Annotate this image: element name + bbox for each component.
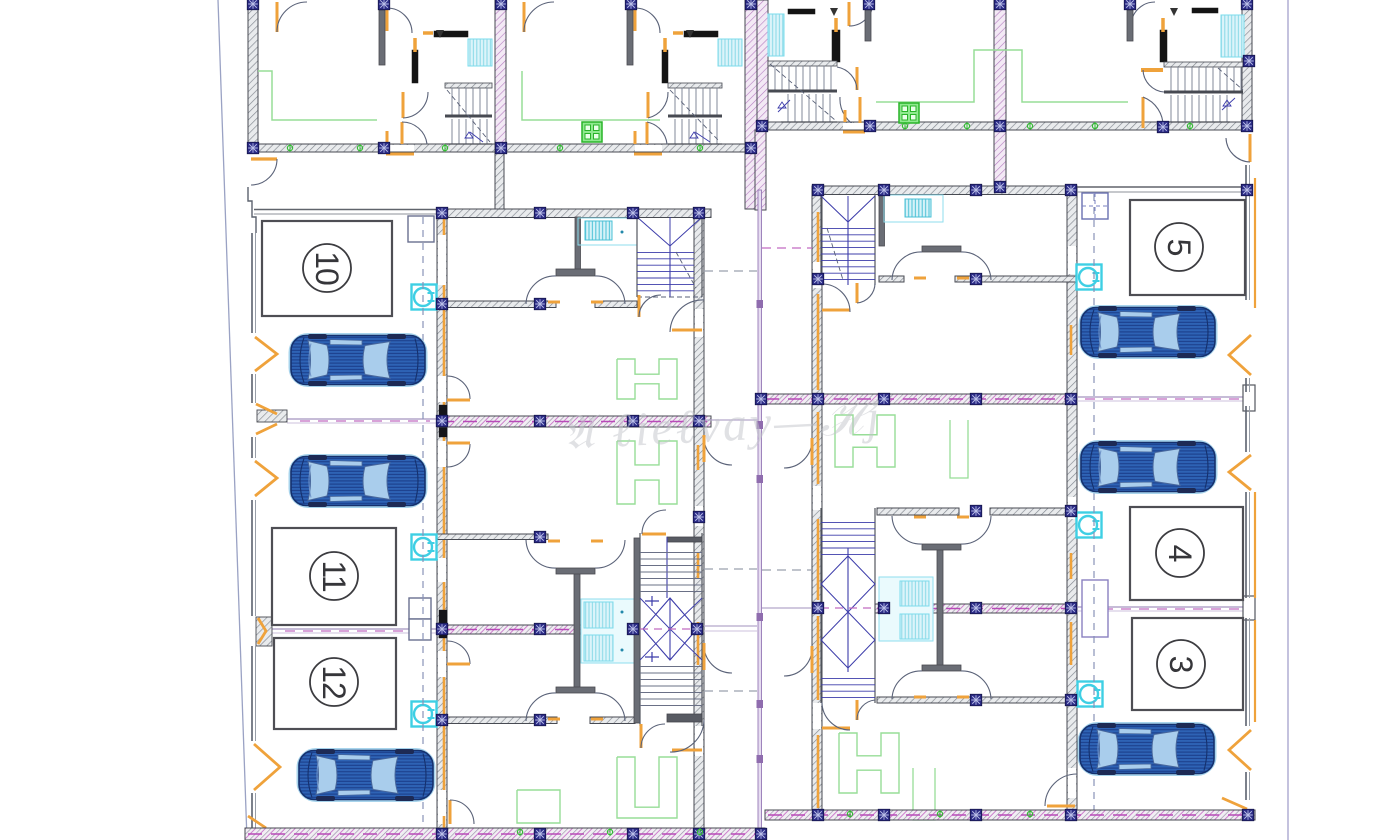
stair1 well [637,217,702,297]
bath2 double doors up [526,540,556,568]
dashed service line right [1093,194,1095,820]
main top wall right section [812,186,1077,195]
green planter right room1b [950,420,968,478]
stair2 exit door [640,724,643,748]
green cabinet room3 [517,790,560,823]
west wall windows [439,405,447,437]
stairR2 well [821,508,875,703]
stair2 winder diamond [643,598,697,660]
bottom left door [248,816,266,828]
parking box 11 [272,528,396,625]
gate chevron 1 [255,337,277,371]
bath2 top cap [556,568,595,574]
bottom door arc left [449,800,452,824]
closet boxes middle [409,598,431,619]
bath1 cyan border [578,218,637,245]
left unit entry door top [672,329,702,332]
meter symbols left [412,285,437,310]
unit2 stove [582,122,602,142]
street doors through block1 wall [387,145,414,152]
unit2 kitchen counter [522,71,660,120]
bath1 wall [575,217,581,270]
parking edge steps [248,187,256,233]
unit2 toilet [686,30,694,38]
stair2 well [640,533,702,726]
bathR1 radiator [905,199,931,217]
corridor dashes right [762,247,812,249]
party wall 1 left unit [437,416,711,427]
unit1 toilet [436,30,444,38]
parking box 3 [1132,618,1243,710]
svg-text:4: 4 [1162,545,1198,562]
green cabinet right room3 [913,768,935,820]
left unit wall above bedroom2 [437,534,548,540]
right unit wall row2 [877,508,959,515]
top-left block bottom wall [248,144,757,152]
right unit west wall [812,194,822,819]
closet box right middle [1082,580,1108,637]
car 6 [1080,723,1214,775]
stair2 bath-side wall [634,538,640,723]
unit3 toilet [830,8,838,16]
green wardrobe room1 [617,359,677,399]
svg-text:10: 10 [309,251,345,285]
unit3 stairs [768,61,837,66]
party wall 1 right unit [762,394,1077,404]
unit2 stair door [647,92,650,118]
corridor head wall [755,130,766,210]
party wall 2 stub [256,617,272,646]
unit2 entry door [523,2,526,32]
top-left block middle party wall [495,0,506,152]
unit2 hall wall [627,0,633,65]
party line through stair2 [640,628,702,630]
left unit east wall [694,209,704,840]
green ticks [287,145,292,150]
unit1 stairs [445,83,492,88]
parking box 4 [1130,507,1243,600]
party line through stairR2 [821,607,875,609]
unit3 stove [899,103,919,123]
party2 ext end door [1243,596,1255,620]
east wall windows orange [697,553,700,579]
wall junction blocks [436,207,448,219]
bottom wall right section [765,810,1255,820]
right margin line [1287,0,1289,840]
top-right block left wall [757,0,768,130]
stair2 top door [642,533,666,536]
svg-text:3: 3 [1163,656,1199,673]
unit2 stairs [668,83,722,88]
parking box 5 [1130,200,1245,295]
meter symbols right [1077,265,1102,290]
car 4 [1081,306,1215,358]
closet box top [408,216,434,242]
party wall 2 right unit [812,604,822,613]
gate chevron 3 [254,744,280,790]
unit1 hall wall [379,0,385,65]
right gate chevron 1 [1229,335,1251,375]
unit1 sink counter [434,31,468,37]
party wall ext stub [257,410,287,422]
stairR1 well [821,194,875,285]
right unit entry door bottom [822,727,850,730]
unit4 sink counter [1192,8,1218,13]
car 1 [291,334,425,386]
car 3 [299,749,433,801]
bathR1 cyan border [884,195,943,222]
bath1 radiator [585,221,612,240]
unit4 shower [1221,15,1244,57]
bathR2 I-beam [937,549,943,669]
top-right block right wall [1242,0,1252,130]
west wall orange door line [443,217,446,235]
unit4 stair doors [1141,68,1163,72]
green wardrobe room3 U [617,757,677,818]
gate jog middle [258,618,266,644]
unit1 shower [468,39,492,66]
double shower right [879,577,933,641]
unit3 shower [768,14,784,56]
connector wall A [495,152,504,210]
connector wall B [994,130,1006,187]
elevator box right top [1082,193,1108,219]
party1 parking extension right [1077,396,1243,398]
bathR3 doors down [892,671,922,699]
right unit entry door top [822,309,850,312]
east wall window orange [1070,553,1073,579]
car 5 [1081,441,1215,493]
parking right edge line [1245,165,1247,300]
green wardrobe right room3 [839,733,899,793]
street door through block2 wall [843,123,865,130]
bath2 wall I-beam [574,573,580,688]
unit1 wc door post [412,50,418,83]
car 2 [291,455,425,507]
corridor dashes left [704,568,757,570]
unit1 stair door [402,92,405,118]
right bottom door [1222,798,1247,809]
stairR1 exit door [856,283,859,303]
right gate chevron 3 [1229,730,1251,770]
unit1 entry door [276,2,279,32]
unit2 hall door [634,5,637,31]
right gate chevron 2 [1229,455,1251,490]
bathR1 cap [922,246,961,252]
unit4 entry door [1130,2,1133,26]
unit2 shower [718,39,742,66]
street edge line left [254,209,437,211]
street door [251,157,277,160]
room2 west door arc [447,444,470,467]
corridor spine wall [758,190,762,833]
party wall 2 left unit [437,625,637,634]
left unit wall bedroom3 [437,717,557,724]
right unit east wall [1067,194,1077,819]
lot boundary line [218,0,247,840]
bathR1 wall [879,194,885,246]
unit4 hall wall [1127,0,1133,41]
dashed service line left [422,217,424,836]
party1 ext end door [1243,385,1255,411]
parking left edge line [251,233,253,333]
bath2 bottom cap [556,687,595,693]
watermark signature [561,390,884,460]
bath3 double doors down [526,693,556,721]
unit2 sink counter [684,31,718,37]
svg-text:11: 11 [316,560,352,591]
top-right block middle wall [994,0,1006,186]
bottom door arc right [1045,774,1077,806]
bathR1 double doors [892,252,922,280]
svg-text:12: 12 [316,665,352,699]
unit1 hall door [386,5,389,31]
stair2 lower treads [640,667,702,706]
unit3 wc post [832,30,840,62]
stair1 lower door [638,295,641,317]
unit4 wc post [1160,30,1167,62]
unit1 kitchen counter [258,71,377,120]
bath1 door cap [556,269,595,276]
right unit wall row3 [877,697,1077,703]
right boundary orange lines [1254,178,1256,308]
left unit west wall [437,217,447,828]
parking box 10 [262,221,392,316]
unit2 wc door post [662,50,668,83]
green wardrobe right room1 [835,415,895,467]
svg-text:5: 5 [1161,239,1197,256]
double shower unit [581,599,635,663]
top-right block bottom wall [757,122,1252,130]
unit3 stair doors [856,67,859,90]
top-left block right wall [745,0,757,209]
left unit wall under bedroom1 [437,301,556,308]
right unit wall row1 [879,276,904,282]
bottom wall left section [245,828,765,840]
main top wall left unit [437,209,711,218]
unit3 kitchen counter [876,50,1128,102]
stairR2 exit door [856,700,859,720]
gate chevron 2 [255,461,277,496]
party wall 1 parking extension [287,418,437,420]
unit3 sink counter [788,9,815,14]
right unit west wall orange [817,212,820,262]
parking box 12 [274,638,396,729]
gate funnel 1 [256,404,277,434]
corridor door arcs [704,437,732,465]
unit4 toilet [1170,8,1178,16]
bathR2 caps [922,544,961,550]
left unit entry door bottom [672,749,702,752]
unit3 hall wall [865,0,871,41]
room3 west door arc [447,641,470,664]
party2 parking extension right [1077,606,1243,608]
top-left block outer left wall [248,0,258,152]
room1 west door arc [447,376,470,399]
bath1 double doors [526,276,556,304]
bathR2 doors up [892,516,922,544]
corridor party crossing lines [704,419,757,421]
green wardrobe room2 [617,441,677,504]
unit4 stairs [1164,62,1243,67]
party wall 2 parking extension [272,628,437,630]
unit3 entry door [848,2,851,26]
right top door [1249,134,1252,162]
